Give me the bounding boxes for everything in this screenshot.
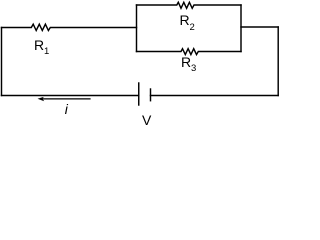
svg-text:1: 1 xyxy=(44,46,49,57)
svg-text:i: i xyxy=(65,101,69,117)
svg-text:R: R xyxy=(34,37,44,53)
svg-text:V: V xyxy=(142,112,152,128)
svg-text:R: R xyxy=(180,12,190,28)
svg-text:2: 2 xyxy=(190,22,195,33)
svg-text:3: 3 xyxy=(191,63,196,74)
svg-text:R: R xyxy=(181,54,191,70)
